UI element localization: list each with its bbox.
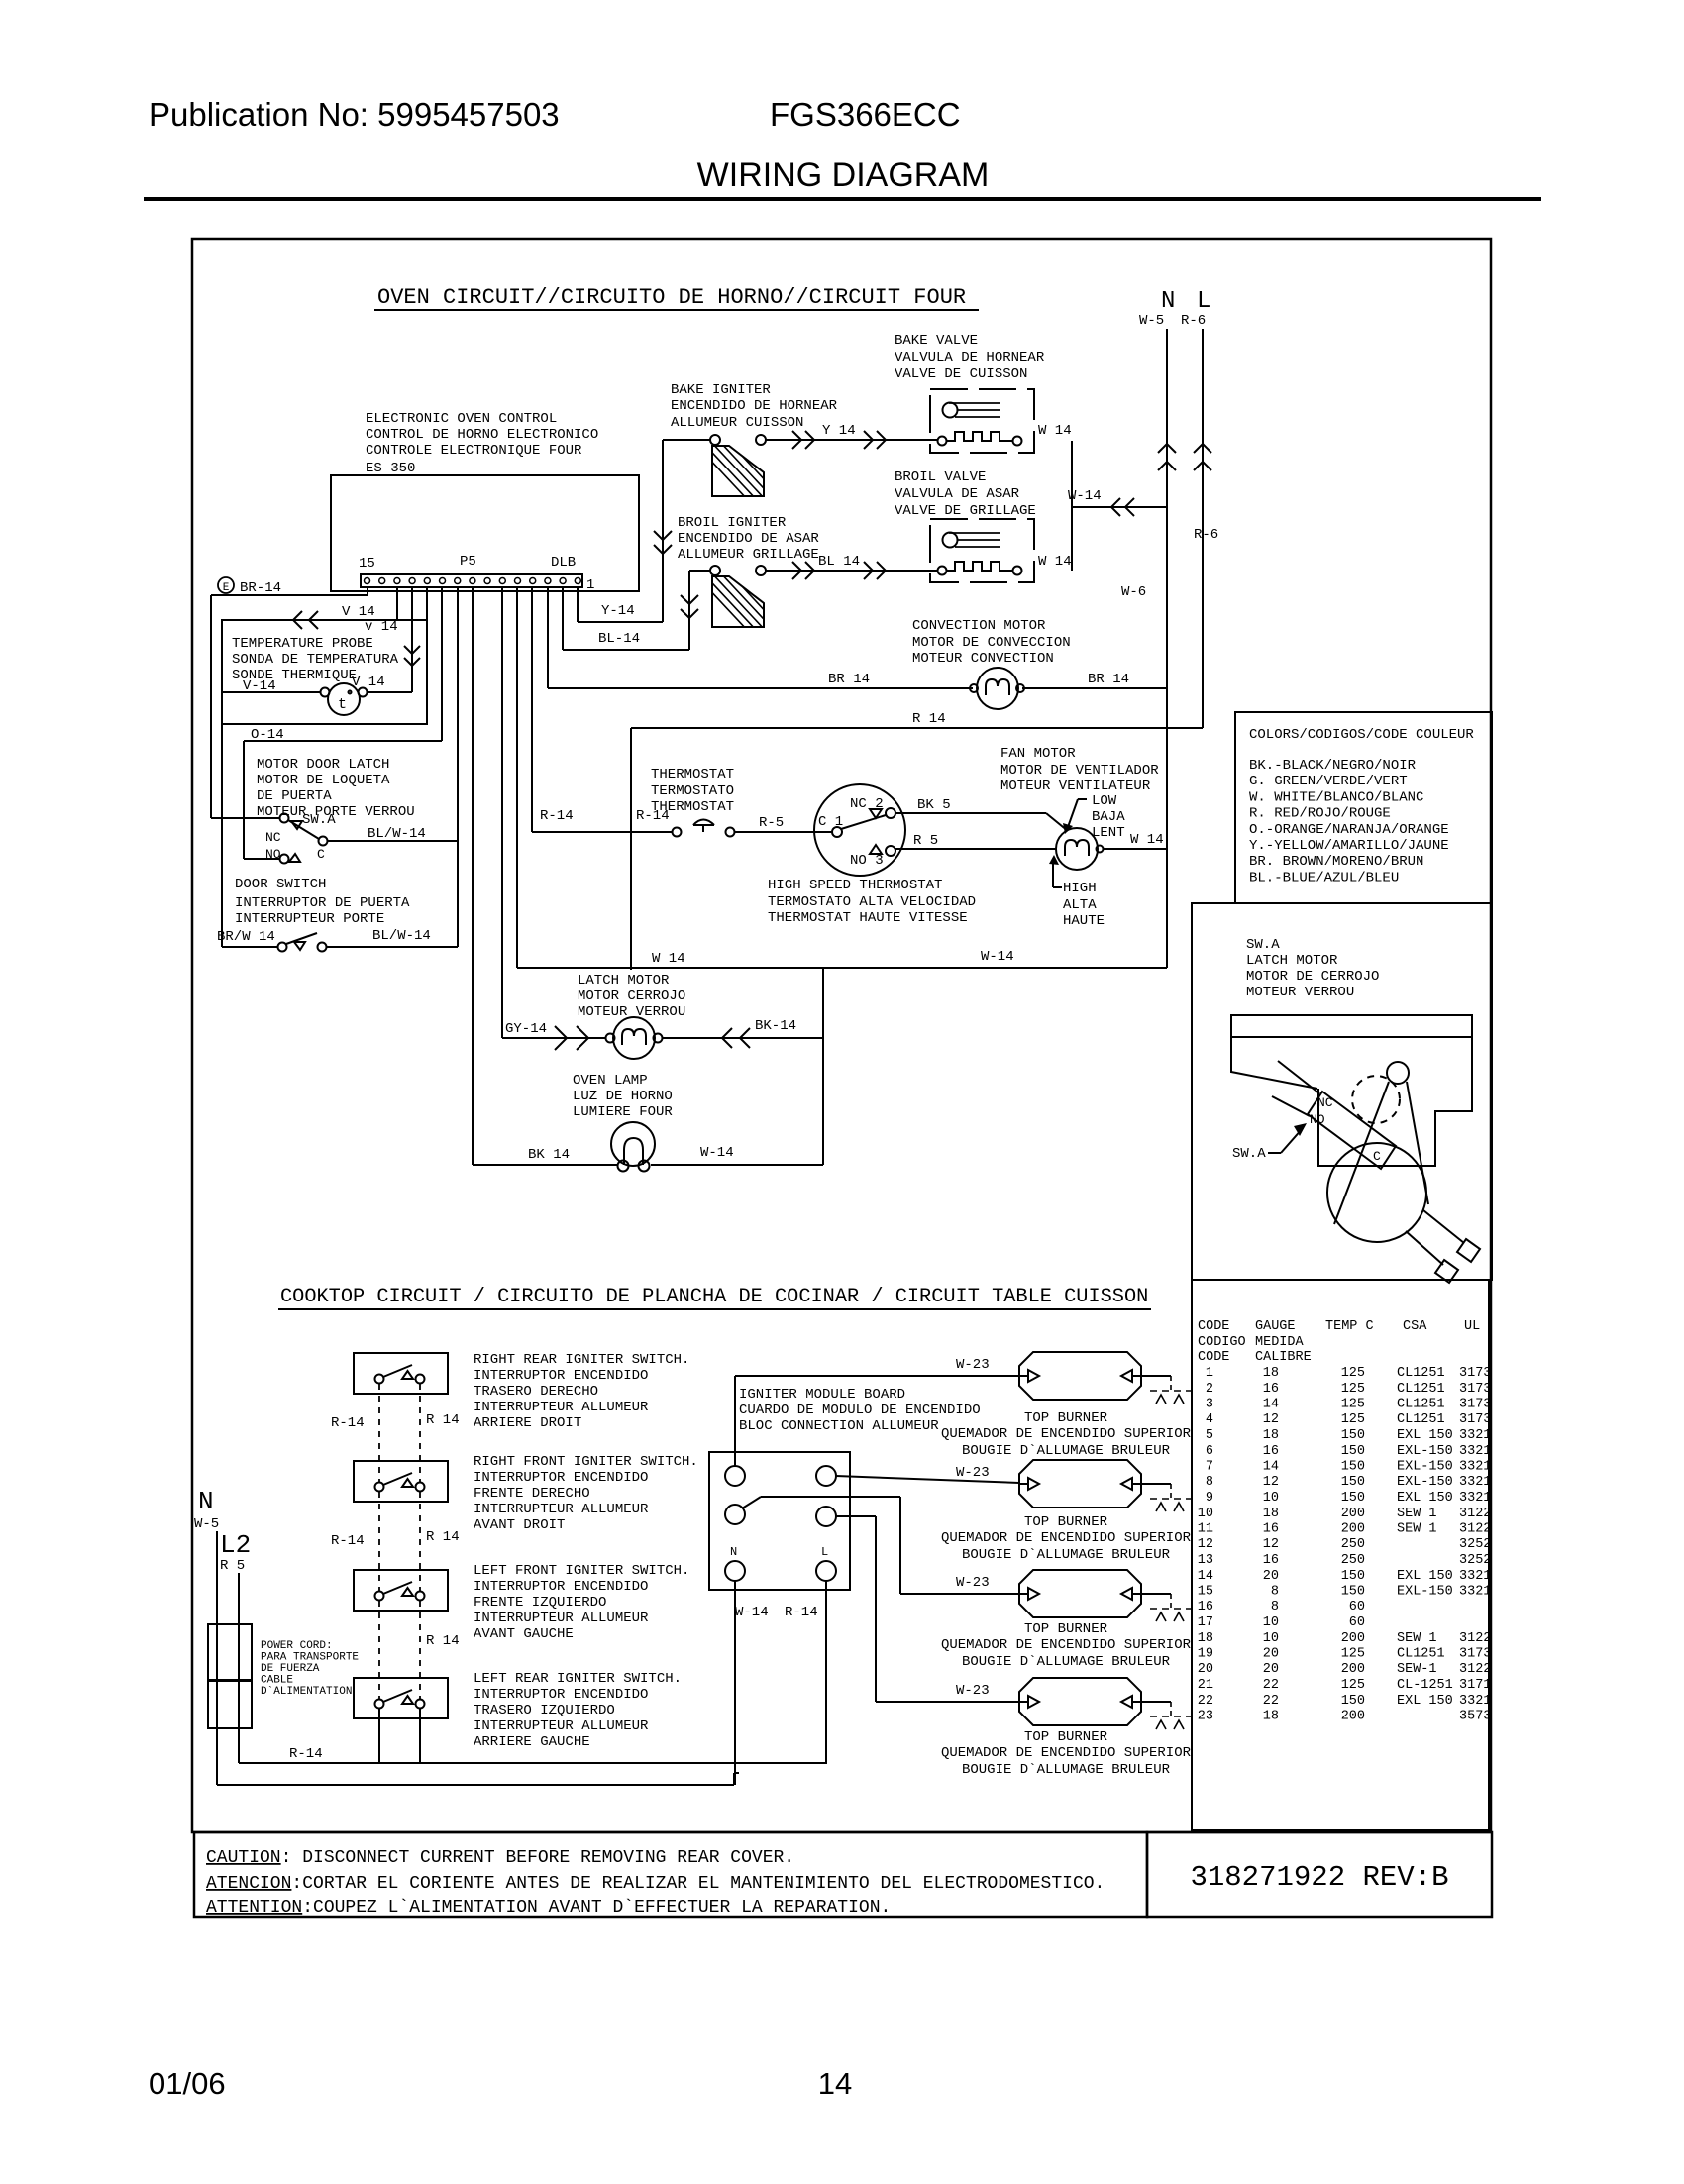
svg-text:COLORS/CODIGOS/CODE COULEUR: COLORS/CODIGOS/CODE COULEUR — [1249, 727, 1474, 743]
svg-text:14: 14 — [1198, 1569, 1213, 1584]
svg-text:3171: 3171 — [1459, 1678, 1491, 1693]
svg-text:20: 20 — [1198, 1662, 1213, 1677]
svg-text:200: 200 — [1341, 1710, 1365, 1724]
svg-text:3122: 3122 — [1459, 1662, 1491, 1677]
svg-text:EXL 150: EXL 150 — [1397, 1569, 1453, 1584]
svg-text:150: 150 — [1341, 1444, 1365, 1459]
svg-text:V 14: V 14 — [352, 675, 385, 690]
svg-text:3173: 3173 — [1459, 1366, 1491, 1381]
svg-text:318271922 REV:B: 318271922 REV:B — [1190, 1861, 1448, 1894]
svg-text:16: 16 — [1263, 1522, 1279, 1537]
svg-text:QUEMADOR DE ENCENDIDO SUPERIOR: QUEMADOR DE ENCENDIDO SUPERIOR — [941, 1637, 1192, 1653]
svg-text:W-14: W-14 — [981, 949, 1014, 965]
svg-text:R 5: R 5 — [220, 1558, 245, 1574]
svg-text:W-14: W-14 — [700, 1145, 734, 1161]
svg-text:01/06: 01/06 — [149, 2066, 226, 2101]
svg-text:BOUGIE D`ALLUMAGE BRULEUR: BOUGIE D`ALLUMAGE BRULEUR — [962, 1443, 1171, 1459]
svg-text:E: E — [223, 582, 230, 594]
svg-text:NO: NO — [265, 847, 281, 862]
svg-text:OVEN CIRCUIT//CIRCUITO DE HORN: OVEN CIRCUIT//CIRCUITO DE HORNO//CIRCUIT… — [377, 285, 966, 310]
svg-text:10: 10 — [1263, 1491, 1279, 1506]
svg-text:150: 150 — [1341, 1694, 1365, 1709]
svg-text:LEFT REAR IGNITER SWITCH.: LEFT REAR IGNITER SWITCH. — [474, 1671, 682, 1687]
svg-text:22: 22 — [1263, 1694, 1279, 1709]
svg-text:EXL 150: EXL 150 — [1397, 1491, 1453, 1506]
svg-text:R-14: R-14 — [540, 808, 574, 824]
svg-text:DE FUERZA: DE FUERZA — [261, 1663, 320, 1675]
svg-text:QUEMADOR DE ENCENDIDO SUPERIOR: QUEMADOR DE ENCENDIDO SUPERIOR — [941, 1426, 1192, 1442]
svg-text:14: 14 — [1263, 1460, 1279, 1475]
svg-text:3122: 3122 — [1459, 1631, 1491, 1646]
svg-text:250: 250 — [1341, 1537, 1365, 1552]
svg-text:23: 23 — [1198, 1710, 1213, 1724]
svg-text:COOKTOP CIRCUIT / CIRCUITO DE: COOKTOP CIRCUIT / CIRCUITO DE PLANCHA DE… — [280, 1286, 1148, 1308]
svg-text:VALVE DE GRILLAGE: VALVE DE GRILLAGE — [895, 503, 1036, 519]
svg-text:BL/W-14: BL/W-14 — [368, 826, 426, 842]
svg-text:CUARDO DE MODULO DE ENCENDIDO: CUARDO DE MODULO DE ENCENDIDO — [739, 1403, 981, 1418]
svg-text:FGS366ECC: FGS366ECC — [770, 96, 961, 133]
svg-text:BR 14: BR 14 — [828, 672, 870, 687]
svg-text:DE PUERTA: DE PUERTA — [257, 788, 332, 804]
svg-text:12: 12 — [1263, 1475, 1279, 1490]
svg-text:PARA TRANSPORTE: PARA TRANSPORTE — [261, 1652, 359, 1664]
svg-text:LENT: LENT — [1092, 825, 1125, 841]
svg-text:200: 200 — [1341, 1522, 1365, 1537]
svg-text:BK-14: BK-14 — [755, 1018, 796, 1034]
svg-text:BK 5: BK 5 — [917, 797, 951, 813]
svg-text:INTERRUPTEUR ALLUMEUR: INTERRUPTEUR ALLUMEUR — [474, 1611, 649, 1626]
svg-text:BAJA: BAJA — [1092, 809, 1125, 825]
svg-text:CL1251: CL1251 — [1397, 1382, 1445, 1397]
svg-text:3573: 3573 — [1459, 1710, 1491, 1724]
svg-text:13: 13 — [1198, 1553, 1213, 1568]
svg-text:MOTEUR PORTE VERROU: MOTEUR PORTE VERROU — [257, 804, 415, 820]
svg-text:TERMOSTATO ALTA VELOCIDAD: TERMOSTATO ALTA VELOCIDAD — [768, 894, 976, 910]
svg-text:10: 10 — [1198, 1507, 1213, 1521]
svg-text:150: 150 — [1341, 1569, 1365, 1584]
svg-text:8: 8 — [1206, 1475, 1213, 1490]
svg-text:HIGH SPEED THERMOSTAT: HIGH SPEED THERMOSTAT — [768, 878, 942, 893]
svg-text:W-5: W-5 — [194, 1516, 219, 1532]
svg-text:MOTEUR CONVECTION: MOTEUR CONVECTION — [912, 651, 1054, 667]
svg-text:3321: 3321 — [1459, 1475, 1491, 1490]
svg-text:CABLE: CABLE — [261, 1675, 293, 1687]
svg-text:20: 20 — [1263, 1662, 1279, 1677]
svg-text:3321: 3321 — [1459, 1491, 1491, 1506]
svg-text:3321: 3321 — [1459, 1460, 1491, 1475]
svg-text:THERMOSTAT: THERMOSTAT — [651, 767, 734, 782]
svg-text:1: 1 — [586, 577, 594, 593]
svg-text:CONTROLE ELECTRONIQUE FOUR: CONTROLE ELECTRONIQUE FOUR — [366, 443, 582, 459]
svg-text:20: 20 — [1263, 1647, 1279, 1662]
svg-text:21: 21 — [1198, 1678, 1213, 1693]
svg-text:18: 18 — [1263, 1710, 1279, 1724]
svg-text:BL/W-14: BL/W-14 — [372, 928, 431, 944]
svg-text:150: 150 — [1341, 1428, 1365, 1443]
svg-text:C 1: C 1 — [818, 814, 843, 830]
svg-text:TRASERO DERECHO: TRASERO DERECHO — [474, 1384, 598, 1400]
svg-text:ARRIERE DROIT: ARRIERE DROIT — [474, 1415, 581, 1431]
svg-text:ELECTRONIC OVEN CONTROL: ELECTRONIC OVEN CONTROL — [366, 411, 557, 427]
svg-text:16: 16 — [1263, 1553, 1279, 1568]
svg-text:SW.A: SW.A — [1246, 937, 1280, 953]
svg-text:MOTOR DE CERROJO: MOTOR DE CERROJO — [1246, 969, 1379, 985]
svg-text:20: 20 — [1263, 1569, 1279, 1584]
svg-text:VALVE DE CUISSON: VALVE DE CUISSON — [895, 366, 1027, 382]
svg-text:1: 1 — [1206, 1366, 1213, 1381]
svg-text:AVANT DROIT: AVANT DROIT — [474, 1517, 565, 1533]
svg-text:W-23: W-23 — [956, 1357, 990, 1373]
svg-text:3321: 3321 — [1459, 1569, 1491, 1584]
svg-text:BR. BROWN/MORENO/BRUN: BR. BROWN/MORENO/BRUN — [1249, 854, 1423, 870]
svg-text:3122: 3122 — [1459, 1522, 1491, 1537]
svg-text:BR/W 14: BR/W 14 — [217, 929, 275, 945]
svg-text:R-6: R-6 — [1194, 527, 1218, 543]
svg-text:W 14: W 14 — [1130, 832, 1164, 848]
svg-text:TERMOSTATO: TERMOSTATO — [651, 783, 734, 799]
svg-text:8: 8 — [1271, 1600, 1279, 1614]
svg-text:INTERRUPTOR ENCENDIDO: INTERRUPTOR ENCENDIDO — [474, 1470, 648, 1486]
svg-text:INTERRUPTOR DE PUERTA: INTERRUPTOR DE PUERTA — [235, 895, 410, 911]
svg-text:MOTOR DE VENTILADOR: MOTOR DE VENTILADOR — [1000, 763, 1159, 779]
svg-text:FRENTE DERECHO: FRENTE DERECHO — [474, 1486, 590, 1502]
svg-text:ALTA: ALTA — [1063, 897, 1097, 913]
svg-text:BOUGIE D`ALLUMAGE BRULEUR: BOUGIE D`ALLUMAGE BRULEUR — [962, 1547, 1171, 1563]
svg-text:EXL-150: EXL-150 — [1397, 1444, 1453, 1459]
svg-text:16: 16 — [1263, 1444, 1279, 1459]
svg-text:UL: UL — [1464, 1319, 1480, 1334]
svg-text:ENCENDIDO DE HORNEAR: ENCENDIDO DE HORNEAR — [671, 398, 838, 414]
svg-text:LEFT FRONT IGNITER SWITCH.: LEFT FRONT IGNITER SWITCH. — [474, 1563, 689, 1579]
svg-text:18: 18 — [1263, 1366, 1279, 1381]
svg-text:14: 14 — [818, 2066, 852, 2101]
svg-text:CODE: CODE — [1198, 1319, 1229, 1334]
svg-text:GY-14: GY-14 — [505, 1021, 547, 1037]
svg-text:W 14: W 14 — [652, 951, 685, 967]
svg-text:MOTOR DOOR LATCH: MOTOR DOOR LATCH — [257, 757, 389, 773]
svg-text:CL-1251: CL-1251 — [1397, 1678, 1453, 1693]
svg-text:QUEMADOR DE ENCENDIDO SUPERIOR: QUEMADOR DE ENCENDIDO SUPERIOR — [941, 1745, 1192, 1761]
svg-text:15: 15 — [359, 556, 375, 572]
svg-text:9: 9 — [1206, 1491, 1213, 1506]
svg-text:NO 3: NO 3 — [850, 853, 884, 869]
svg-text:EXL 150: EXL 150 — [1397, 1694, 1453, 1709]
svg-text:R 14: R 14 — [426, 1633, 460, 1649]
svg-text:3173: 3173 — [1459, 1412, 1491, 1427]
svg-text:SONDE THERMIQUE: SONDE THERMIQUE — [232, 668, 357, 683]
svg-text:R 14: R 14 — [426, 1412, 460, 1428]
svg-text:22: 22 — [1263, 1678, 1279, 1693]
svg-text:C: C — [1373, 1149, 1381, 1164]
svg-text:BROIL VALVE: BROIL VALVE — [895, 469, 986, 485]
svg-text:125: 125 — [1341, 1382, 1365, 1397]
svg-text:14: 14 — [1263, 1398, 1279, 1412]
svg-text:LATCH MOTOR: LATCH MOTOR — [578, 973, 670, 988]
svg-text:FAN MOTOR: FAN MOTOR — [1000, 746, 1076, 762]
svg-text:LOW: LOW — [1092, 793, 1117, 809]
svg-text:W-6: W-6 — [1121, 584, 1146, 600]
svg-text:3321: 3321 — [1459, 1444, 1491, 1459]
svg-text:3321: 3321 — [1459, 1428, 1491, 1443]
svg-text:ES 350: ES 350 — [366, 461, 415, 476]
svg-text:TOP BURNER: TOP BURNER — [1024, 1514, 1108, 1530]
svg-text:12: 12 — [1263, 1412, 1279, 1427]
svg-text:3173: 3173 — [1459, 1382, 1491, 1397]
svg-text:THERMOSTAT HAUTE VITESSE: THERMOSTAT HAUTE VITESSE — [768, 910, 968, 926]
svg-text:V 14: V 14 — [342, 604, 375, 620]
svg-text:200: 200 — [1341, 1507, 1365, 1521]
svg-text:R-14: R-14 — [785, 1605, 818, 1620]
svg-text:EXL-150: EXL-150 — [1397, 1475, 1453, 1490]
svg-text:17: 17 — [1198, 1615, 1213, 1630]
svg-text:DOOR SWITCH: DOOR SWITCH — [235, 877, 326, 892]
svg-text:TRASERO IZQUIERDO: TRASERO IZQUIERDO — [474, 1703, 615, 1718]
svg-text:12: 12 — [1263, 1537, 1279, 1552]
svg-text:150: 150 — [1341, 1475, 1365, 1490]
svg-text:t: t — [338, 696, 347, 713]
svg-text:N: N — [1161, 288, 1175, 315]
svg-text:L2: L2 — [220, 1530, 251, 1560]
svg-text:250: 250 — [1341, 1553, 1365, 1568]
svg-text:W-14: W-14 — [1068, 488, 1102, 504]
svg-text:125: 125 — [1341, 1412, 1365, 1427]
svg-text:O.-ORANGE/NARANJA/ORANGE: O.-ORANGE/NARANJA/ORANGE — [1249, 822, 1449, 838]
svg-text:W 14: W 14 — [1038, 423, 1072, 439]
svg-text:WIRING DIAGRAM: WIRING DIAGRAM — [697, 156, 990, 194]
svg-text:C: C — [317, 847, 325, 862]
svg-text:ATTENTION:COUPEZ L`ALIMENTATIO: ATTENTION:COUPEZ L`ALIMENTATION AVANT D`… — [206, 1898, 891, 1918]
svg-text:3252: 3252 — [1459, 1537, 1491, 1552]
svg-text:CL1251: CL1251 — [1397, 1366, 1445, 1381]
svg-text:GAUGE: GAUGE — [1255, 1319, 1296, 1334]
svg-text:TOP BURNER: TOP BURNER — [1024, 1729, 1108, 1745]
svg-text:BROIL IGNITER: BROIL IGNITER — [678, 515, 787, 531]
svg-text:125: 125 — [1341, 1366, 1365, 1381]
svg-text:CODIGO: CODIGO — [1198, 1335, 1246, 1350]
svg-text:INTERRUPTEUR ALLUMEUR: INTERRUPTEUR ALLUMEUR — [474, 1718, 649, 1734]
svg-text:BL-14: BL-14 — [598, 631, 640, 647]
svg-text:INTERRUPTOR ENCENDIDO: INTERRUPTOR ENCENDIDO — [474, 1579, 648, 1595]
svg-text:R-14: R-14 — [289, 1746, 323, 1762]
svg-text:EXL 150: EXL 150 — [1397, 1428, 1453, 1443]
svg-text:R 14: R 14 — [912, 711, 946, 727]
svg-text:2: 2 — [1206, 1382, 1213, 1397]
svg-text:BL 14: BL 14 — [818, 554, 860, 570]
svg-text:RIGHT FRONT IGNITER SWITCH.: RIGHT FRONT IGNITER SWITCH. — [474, 1454, 698, 1470]
svg-text:MOTEUR VERROU: MOTEUR VERROU — [578, 1004, 685, 1020]
svg-text:MOTEUR VENTILATEUR: MOTEUR VENTILATEUR — [1000, 779, 1151, 794]
svg-text:3321: 3321 — [1459, 1585, 1491, 1600]
svg-text:D`ALIMENTATION: D`ALIMENTATION — [261, 1685, 352, 1698]
svg-text:ARRIERE GAUCHE: ARRIERE GAUCHE — [474, 1734, 590, 1750]
svg-text:125: 125 — [1341, 1647, 1365, 1662]
svg-text:W. WHITE/BLANCO/BLANC: W. WHITE/BLANCO/BLANC — [1249, 789, 1423, 805]
svg-text:ALLUMEUR CUISSON: ALLUMEUR CUISSON — [671, 415, 803, 431]
svg-text:SEW-1: SEW-1 — [1397, 1662, 1437, 1677]
svg-text:VALVULA DE ASAR: VALVULA DE ASAR — [895, 486, 1020, 502]
svg-text:Publication No: 5995457503: Publication No: 5995457503 — [149, 96, 560, 133]
svg-text:MOTOR CERROJO: MOTOR CERROJO — [578, 988, 685, 1004]
svg-text:W-23: W-23 — [956, 1575, 990, 1591]
svg-text:IGNITER MODULE BOARD: IGNITER MODULE BOARD — [739, 1387, 905, 1403]
svg-text:W-14: W-14 — [735, 1605, 769, 1620]
svg-text:INTERRUPTOR ENCENDIDO: INTERRUPTOR ENCENDIDO — [474, 1368, 648, 1384]
svg-text:Y-14: Y-14 — [601, 603, 635, 619]
svg-text:R 5: R 5 — [913, 833, 938, 849]
svg-text:SEW 1: SEW 1 — [1397, 1522, 1437, 1537]
svg-text:v 14: v 14 — [365, 619, 398, 635]
svg-text:R-5: R-5 — [759, 815, 784, 831]
svg-text:6: 6 — [1206, 1444, 1213, 1459]
svg-text:R-14: R-14 — [331, 1533, 365, 1549]
svg-text:DLB: DLB — [551, 555, 576, 571]
svg-text:BAKE VALVE: BAKE VALVE — [895, 333, 978, 349]
svg-text:W-23: W-23 — [956, 1683, 990, 1699]
svg-text:3252: 3252 — [1459, 1553, 1491, 1568]
svg-text:200: 200 — [1341, 1662, 1365, 1677]
svg-text:125: 125 — [1341, 1678, 1365, 1693]
svg-text:125: 125 — [1341, 1398, 1365, 1412]
svg-text:W 14: W 14 — [1038, 554, 1072, 570]
svg-text:INTERRUPTEUR ALLUMEUR: INTERRUPTEUR ALLUMEUR — [474, 1502, 649, 1517]
svg-text:ENCENDIDO DE ASAR: ENCENDIDO DE ASAR — [678, 531, 819, 547]
svg-text:SW.A: SW.A — [1232, 1146, 1266, 1162]
svg-text:TOP BURNER: TOP BURNER — [1024, 1621, 1108, 1637]
svg-text:CL1251: CL1251 — [1397, 1412, 1445, 1427]
svg-text:NC 2: NC 2 — [850, 796, 884, 812]
svg-text:G. GREEN/VERDE/VERT: G. GREEN/VERDE/VERT — [1249, 774, 1408, 789]
svg-text:SW.A: SW.A — [302, 812, 336, 828]
svg-text:FRENTE IZQUIERDO: FRENTE IZQUIERDO — [474, 1595, 606, 1611]
svg-text:BK 14: BK 14 — [528, 1147, 570, 1163]
svg-text:Y.-YELLOW/AMARILLO/JAUNE: Y.-YELLOW/AMARILLO/JAUNE — [1249, 838, 1449, 854]
svg-text:SEW 1: SEW 1 — [1397, 1507, 1437, 1521]
svg-text:TOP BURNER: TOP BURNER — [1024, 1410, 1108, 1426]
svg-text:BAKE IGNITER: BAKE IGNITER — [671, 382, 771, 398]
svg-text:RIGHT REAR IGNITER SWITCH.: RIGHT REAR IGNITER SWITCH. — [474, 1352, 689, 1368]
svg-text:19: 19 — [1198, 1647, 1213, 1662]
svg-text:60: 60 — [1349, 1615, 1365, 1630]
svg-text:W-23: W-23 — [956, 1465, 990, 1481]
svg-text:BK.-BLACK/NEGRO/NOIR: BK.-BLACK/NEGRO/NOIR — [1249, 758, 1417, 774]
svg-text:INTERRUPTOR ENCENDIDO: INTERRUPTOR ENCENDIDO — [474, 1687, 648, 1703]
svg-text:BLOC CONNECTION ALLUMEUR: BLOC CONNECTION ALLUMEUR — [739, 1418, 939, 1434]
svg-text:EXL-150: EXL-150 — [1397, 1460, 1453, 1475]
svg-text:18: 18 — [1198, 1631, 1213, 1646]
svg-text:OVEN LAMP: OVEN LAMP — [573, 1073, 648, 1089]
svg-text:10: 10 — [1263, 1615, 1279, 1630]
svg-text:150: 150 — [1341, 1585, 1365, 1600]
svg-text:R. RED/ROJO/ROUGE: R. RED/ROJO/ROUGE — [1249, 806, 1391, 822]
svg-text:SONDA DE TEMPERATURA: SONDA DE TEMPERATURA — [232, 652, 399, 668]
svg-text:NO: NO — [1310, 1112, 1325, 1127]
svg-text:VALVULA DE HORNEAR: VALVULA DE HORNEAR — [895, 350, 1045, 365]
svg-text:3122: 3122 — [1459, 1507, 1491, 1521]
svg-text:R 14: R 14 — [426, 1529, 460, 1545]
svg-text:10: 10 — [1263, 1631, 1279, 1646]
svg-text:R-6: R-6 — [1181, 313, 1206, 329]
svg-text:CALIBRE: CALIBRE — [1255, 1350, 1312, 1365]
svg-text:CONTROL DE HORNO ELECTRONICO: CONTROL DE HORNO ELECTRONICO — [366, 427, 598, 443]
svg-text:INTERRUPTEUR PORTE: INTERRUPTEUR PORTE — [235, 911, 384, 927]
svg-text:MOTOR DE CONVECCION: MOTOR DE CONVECCION — [912, 635, 1071, 651]
svg-text:16: 16 — [1263, 1382, 1279, 1397]
svg-text:N: N — [730, 1545, 737, 1559]
svg-text:MEDIDA: MEDIDA — [1255, 1335, 1305, 1350]
svg-text:EXL-150: EXL-150 — [1397, 1585, 1453, 1600]
svg-text:INTERRUPTEUR ALLUMEUR: INTERRUPTEUR ALLUMEUR — [474, 1400, 649, 1415]
svg-text:CONVECTION MOTOR: CONVECTION MOTOR — [912, 618, 1046, 634]
svg-text:22: 22 — [1198, 1694, 1213, 1709]
svg-text:15: 15 — [1198, 1585, 1213, 1600]
svg-text:W-5: W-5 — [1139, 313, 1164, 329]
svg-text:16: 16 — [1198, 1600, 1213, 1614]
svg-text:150: 150 — [1341, 1491, 1365, 1506]
svg-text:LUMIERE FOUR: LUMIERE FOUR — [573, 1104, 673, 1120]
svg-text:BOUGIE D`ALLUMAGE BRULEUR: BOUGIE D`ALLUMAGE BRULEUR — [962, 1762, 1171, 1778]
svg-text:CODE: CODE — [1198, 1350, 1229, 1365]
svg-text:QUEMADOR DE ENCENDIDO SUPERIOR: QUEMADOR DE ENCENDIDO SUPERIOR — [941, 1530, 1192, 1546]
svg-text:BL.-BLUE/AZUL/BLEU: BL.-BLUE/AZUL/BLEU — [1249, 870, 1399, 885]
svg-text:3173: 3173 — [1459, 1647, 1491, 1662]
svg-text:CL1251: CL1251 — [1397, 1398, 1445, 1412]
svg-text:7: 7 — [1206, 1460, 1213, 1475]
svg-text:AVANT GAUCHE: AVANT GAUCHE — [474, 1626, 574, 1642]
svg-text:BR-14: BR-14 — [240, 580, 281, 596]
svg-text:HAUTE: HAUTE — [1063, 913, 1105, 929]
svg-text:CSA: CSA — [1403, 1319, 1427, 1334]
svg-text:200: 200 — [1341, 1631, 1365, 1646]
svg-text:LATCH MOTOR: LATCH MOTOR — [1246, 953, 1338, 969]
svg-text:5: 5 — [1206, 1428, 1213, 1443]
svg-text:SEW 1: SEW 1 — [1397, 1631, 1437, 1646]
svg-text:11: 11 — [1198, 1522, 1213, 1537]
svg-text:NC: NC — [1317, 1095, 1333, 1110]
svg-text:3: 3 — [1206, 1398, 1213, 1412]
svg-text:3173: 3173 — [1459, 1398, 1491, 1412]
svg-text:P5: P5 — [460, 554, 476, 570]
svg-text:18: 18 — [1263, 1428, 1279, 1443]
svg-text:Y 14: Y 14 — [822, 423, 856, 439]
svg-text:BR 14: BR 14 — [1088, 672, 1129, 687]
svg-text:LUZ DE HORNO: LUZ DE HORNO — [573, 1089, 673, 1104]
svg-text:NC: NC — [265, 830, 281, 845]
svg-text:4: 4 — [1206, 1412, 1213, 1427]
svg-text:150: 150 — [1341, 1460, 1365, 1475]
svg-text:TEMPERATURE PROBE: TEMPERATURE PROBE — [232, 636, 373, 652]
svg-text:POWER CORD:: POWER CORD: — [261, 1640, 333, 1652]
svg-text:18: 18 — [1263, 1507, 1279, 1521]
svg-text:12: 12 — [1198, 1537, 1213, 1552]
svg-text:TEMP C: TEMP C — [1325, 1319, 1374, 1334]
svg-text:ATENCION:CORTAR EL CORIENTE AN: ATENCION:CORTAR EL CORIENTE ANTES DE REA… — [206, 1874, 1105, 1894]
svg-text:8: 8 — [1271, 1585, 1279, 1600]
svg-text:ALLUMEUR GRILLAGE: ALLUMEUR GRILLAGE — [678, 547, 819, 563]
svg-text:R-14: R-14 — [331, 1415, 365, 1431]
svg-text:R-14: R-14 — [636, 808, 670, 824]
svg-text:MOTOR DE LOQUETA: MOTOR DE LOQUETA — [257, 773, 390, 788]
svg-text:L: L — [821, 1545, 828, 1559]
svg-text:O-14: O-14 — [251, 727, 284, 743]
svg-text:MOTEUR VERROU: MOTEUR VERROU — [1246, 985, 1354, 1000]
svg-text:CAUTION: DISCONNECT CURRENT BE: CAUTION: DISCONNECT CURRENT BEFORE REMOV… — [206, 1848, 794, 1868]
svg-text:60: 60 — [1349, 1600, 1365, 1614]
svg-text:N: N — [198, 1487, 214, 1516]
svg-text:CL1251: CL1251 — [1397, 1647, 1445, 1662]
svg-text:3321: 3321 — [1459, 1694, 1491, 1709]
svg-text:HIGH: HIGH — [1063, 881, 1097, 896]
svg-text:BOUGIE D`ALLUMAGE BRULEUR: BOUGIE D`ALLUMAGE BRULEUR — [962, 1654, 1171, 1670]
